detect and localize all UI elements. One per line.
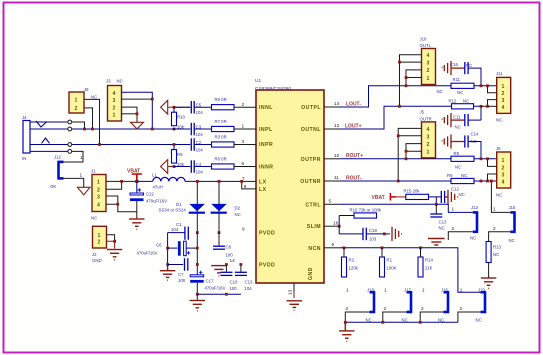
wire J6 pin2 jog <box>488 159 497 167</box>
svg-text:C13: C13 <box>439 220 447 225</box>
svg-text:VBAT: VBAT <box>127 169 140 175</box>
wire C14 to R8 node <box>468 142 481 159</box>
node NCN R1 <box>381 246 384 249</box>
svg-text:2: 2 <box>98 240 101 246</box>
node J10 pins12 junction <box>405 76 408 79</box>
node J3 pin1 junction <box>136 112 139 115</box>
node J8 pin2 on INPL <box>91 128 94 131</box>
wire INNL row <box>168 106 191 108</box>
wire R12 to J11 pin4 <box>474 106 482 120</box>
svg-text:1: 1 <box>452 207 455 212</box>
jumper J17 <box>407 291 413 313</box>
ground under R13 <box>481 278 496 288</box>
resistor R8 <box>451 156 474 161</box>
sideways ground of C14 <box>442 134 465 148</box>
svg-text:C10: C10 <box>230 280 238 285</box>
node J1 pins34 junction <box>116 203 119 206</box>
node J5 pin3 junction <box>397 134 400 137</box>
svg-text:J3: J3 <box>106 79 111 84</box>
electrolytic C22 stem top <box>136 181 138 193</box>
svg-text:1: 1 <box>427 150 430 156</box>
wire cap C5 to R5 <box>194 106 211 108</box>
node rail1-D1 junction <box>196 231 199 234</box>
node J2 junction <box>113 240 116 243</box>
svg-text:J12: J12 <box>54 154 62 159</box>
svg-text:NC: NC <box>461 173 467 178</box>
svg-text:6: 6 <box>242 161 245 166</box>
svg-text:C11: C11 <box>453 115 461 120</box>
wire R6 to IC pin 4 <box>234 166 256 168</box>
node J8 pin1 on INPR <box>98 143 101 146</box>
wire C6 left <box>168 247 178 249</box>
svg-text:3: 3 <box>97 194 100 200</box>
electrolytic C6 plate1 <box>178 241 181 256</box>
wire J10 pin1 stub <box>406 78 422 86</box>
capacitor C11 plates <box>465 114 468 126</box>
svg-text:14: 14 <box>334 101 340 106</box>
wire jack contact row2 <box>30 128 68 130</box>
capacitor C8 plates <box>213 246 225 249</box>
wire LX pin7 stub <box>242 180 256 182</box>
resistor R3 <box>212 142 235 147</box>
svg-text:R6 0R: R6 0R <box>215 157 227 162</box>
svg-text:1: 1 <box>113 112 116 118</box>
node J11 pin3 junction <box>486 105 489 108</box>
node J6 pin2 junction <box>486 157 489 160</box>
node gnd rail J16 <box>419 321 422 324</box>
svg-text:GND: GND <box>92 258 102 263</box>
svg-text:R3 0R: R3 0R <box>215 135 227 140</box>
svg-text:5: 5 <box>329 199 332 204</box>
capacitor C3 plates <box>191 123 194 136</box>
svg-text:104: 104 <box>196 170 204 175</box>
port arrow INNR <box>161 160 168 174</box>
wire C18 right to gnd <box>366 233 390 235</box>
wire L1 to LX pins <box>185 180 242 182</box>
wire C16 to LOUT- node <box>468 68 481 86</box>
header J2 body <box>93 226 107 248</box>
jumper J18 <box>370 291 376 313</box>
svg-text:J8: J8 <box>84 87 89 92</box>
diode D1 cathode bar <box>189 212 205 214</box>
wire SLIM loop left <box>338 216 340 234</box>
svg-text:J11: J11 <box>496 71 503 76</box>
node rail1-D2 junction <box>218 231 221 234</box>
header J5 body <box>422 122 436 158</box>
svg-text:100K: 100K <box>387 266 397 271</box>
node VBAT junction <box>135 180 138 183</box>
electrolytic C22 plate1 <box>130 193 144 195</box>
svg-text:2: 2 <box>452 226 455 231</box>
IC GND pin 13 stub <box>293 283 295 292</box>
op-amp IC U1 body <box>256 90 324 283</box>
svg-text:NC: NC <box>493 252 499 257</box>
wire J19 pin2 to gnd rail <box>458 312 481 322</box>
svg-text:NC: NC <box>437 89 443 94</box>
svg-text:INPR: INPR <box>259 142 273 148</box>
wire J10 pin4 to LOUT+ rail <box>400 55 422 107</box>
jumper J19 <box>481 291 487 313</box>
wire C18 left <box>339 233 363 235</box>
ground on rail2 at D2 column <box>211 266 226 276</box>
wire CTRL row <box>340 204 473 212</box>
svg-text:47uH: 47uH <box>153 185 163 190</box>
svg-text:LX: LX <box>259 187 267 193</box>
wire c4 to J12 <box>64 151 84 162</box>
svg-text:LX: LX <box>259 179 267 185</box>
capacitor C13 plates <box>235 272 247 275</box>
svg-text:1: 1 <box>75 98 78 104</box>
svg-text:R10: R10 <box>177 114 185 119</box>
capacitor C4 plates <box>191 160 194 173</box>
power ground triangle at J12 <box>77 187 90 195</box>
resistor R11 <box>451 83 474 88</box>
svg-text:R15 20k: R15 20k <box>404 189 421 194</box>
svg-text:104: 104 <box>196 110 204 115</box>
wire J8 pin2 to INPL <box>84 108 93 129</box>
svg-text:1: 1 <box>97 180 100 186</box>
svg-text:R11: R11 <box>453 77 461 82</box>
wire J10 pin2 jog <box>406 70 422 78</box>
capacitor C5 plates <box>191 101 194 114</box>
wire R7 to IC pin 1 <box>234 128 256 130</box>
jack switch terminal c2 <box>68 127 72 131</box>
wire J1 pin3 jog down <box>106 196 118 204</box>
resistor R10 (INNL-INPL) <box>172 112 177 126</box>
svg-text:2: 2 <box>502 91 505 97</box>
wire R16 leads <box>339 215 354 217</box>
wire J16 pin2 to gnd rail <box>420 312 443 322</box>
resistor R12 <box>452 104 474 109</box>
wire C17 stem bottom <box>196 283 198 300</box>
svg-text:1: 1 <box>346 288 349 293</box>
svg-text:GND: GND <box>308 267 314 280</box>
svg-text:J4: J4 <box>22 115 27 120</box>
node rail2 start junction <box>166 263 169 266</box>
electrolytic C6 plate2 <box>184 241 187 256</box>
svg-text:L1: L1 <box>152 173 157 178</box>
wire rail1 left drop <box>167 233 169 265</box>
svg-text:J13: J13 <box>471 205 479 210</box>
ground under J2 <box>107 250 122 260</box>
svg-text:U1: U1 <box>255 78 261 84</box>
capacitor C10 stem <box>225 265 227 272</box>
resistor R5 <box>212 105 235 110</box>
svg-text:12: 12 <box>334 123 340 128</box>
svg-text:J15: J15 <box>509 205 517 210</box>
wire J13 pin2 to gnd <box>448 232 473 240</box>
svg-text:NC: NC <box>457 90 463 95</box>
capacitor C13b stem <box>435 204 437 213</box>
svg-text:3: 3 <box>502 173 505 179</box>
wire INPR row <box>72 144 191 146</box>
capacitor C14 plates <box>465 135 468 147</box>
svg-text:16: 16 <box>333 220 339 225</box>
resistor R15 <box>406 194 429 199</box>
svg-text:R2: R2 <box>349 258 355 263</box>
wire R11 to J11 pin1 node <box>474 85 497 87</box>
svg-text:2: 2 <box>384 306 387 311</box>
svg-text:R7 0R: R7 0R <box>215 119 227 124</box>
svg-text:9: 9 <box>242 227 245 232</box>
header J10 body <box>422 49 436 85</box>
svg-text:R1: R1 <box>387 258 393 263</box>
node J6 pin3 junction <box>486 180 489 183</box>
wire cap C3 to R7 <box>194 128 211 130</box>
wire J5 pin4 to ROUT- <box>398 128 421 181</box>
resistor R14 <box>418 257 423 277</box>
jumper J12 <box>58 161 64 179</box>
wire J3 pin1 stub <box>122 113 138 115</box>
jack ring contact mark <box>42 138 50 143</box>
svg-text:OUTPR: OUTPR <box>301 157 321 163</box>
ground under rail column <box>160 265 175 281</box>
diode D2 cathode bar <box>211 212 227 214</box>
svg-text:4: 4 <box>427 127 430 133</box>
svg-text:4: 4 <box>97 202 100 208</box>
resistor R9 leads <box>173 145 175 150</box>
svg-text:R8: R8 <box>454 151 460 156</box>
svg-text:11: 11 <box>334 175 339 180</box>
svg-text:4: 4 <box>502 105 505 111</box>
svg-text:C16: C16 <box>450 62 458 67</box>
svg-text:J1: J1 <box>91 169 96 174</box>
svg-text:NC: NC <box>509 238 515 243</box>
wire VBAT to L1 <box>137 180 153 182</box>
ground under C13b <box>428 239 445 246</box>
svg-text:2: 2 <box>346 306 349 311</box>
node J15 pin1 on ROUT- <box>490 180 493 183</box>
svg-text:2: 2 <box>421 306 424 311</box>
svg-text:J17: J17 <box>404 287 412 292</box>
wire OUTPR pin stub <box>324 158 340 160</box>
capacitor C1 plates (on rail) <box>185 227 188 240</box>
svg-text:PVDD: PVDD <box>259 263 275 269</box>
svg-text:14: 14 <box>230 258 236 263</box>
svg-text:C6: C6 <box>156 243 162 248</box>
svg-text:470uF/16V: 470uF/16V <box>205 285 226 290</box>
svg-text:3: 3 <box>427 134 430 140</box>
wire J3 pin2 to ground <box>122 107 138 122</box>
svg-text:CTRL: CTRL <box>305 202 321 208</box>
svg-text:2: 2 <box>242 102 245 107</box>
svg-text:INNR: INNR <box>259 165 273 171</box>
electrolytic C17 plate1 <box>190 275 204 277</box>
svg-text:2: 2 <box>427 68 430 74</box>
header J11 body <box>497 77 511 113</box>
wire OUTNR pin stub <box>324 180 340 182</box>
svg-text:SLIM: SLIM <box>307 224 321 230</box>
capacitor C13 stem <box>240 265 242 272</box>
svg-text:NC: NC <box>91 216 97 221</box>
wire J11 pin3 jog <box>488 100 497 107</box>
svg-text:J18: J18 <box>367 287 375 292</box>
node R10 top junction <box>173 106 176 109</box>
node NCN R2 <box>343 246 346 249</box>
node R11 right junction <box>480 84 483 87</box>
node R10 bottom junction <box>173 128 176 131</box>
svg-text:IN: IN <box>22 156 26 161</box>
wire C11 to R12 node <box>468 119 481 121</box>
node J10 pin3 junction <box>398 61 401 64</box>
svg-text:NC: NC <box>91 95 97 100</box>
svg-text:C17: C17 <box>206 278 214 283</box>
jumper J12 pin2 stub <box>64 178 84 187</box>
resistor R2 leads <box>343 248 345 257</box>
svg-text:C22: C22 <box>146 192 154 197</box>
capacitor C8 stem <box>218 233 220 246</box>
wire jack contact row1 <box>30 121 68 123</box>
svg-text:SS34 or SS24: SS34 or SS24 <box>159 208 187 213</box>
wire PVDD rail pin9 <box>168 232 185 234</box>
svg-text:NC: NC <box>470 236 476 241</box>
svg-text:C12: C12 <box>451 187 459 192</box>
electrolytic C17 plate2 <box>190 280 204 283</box>
svg-text:R13: R13 <box>493 245 501 250</box>
svg-text:NC: NC <box>439 226 445 231</box>
port arrow INNL <box>161 100 168 114</box>
wire NCN pin stub <box>324 247 340 249</box>
svg-text:2: 2 <box>113 106 116 112</box>
wire J8 pin1 to INPR <box>84 99 100 144</box>
wire jack contact row4 <box>30 150 68 152</box>
svg-text:C18: C18 <box>369 228 377 233</box>
svg-text:NC: NC <box>496 193 502 198</box>
svg-text:1: 1 <box>80 155 83 160</box>
svg-text:J10: J10 <box>420 37 428 42</box>
node J5 pins34 on ROUT- <box>397 180 400 183</box>
svg-text:NC: NC <box>235 212 241 217</box>
node J3 vertical on INPL <box>151 128 154 131</box>
wire J5 pin3 stub <box>398 135 421 137</box>
VBAT power bar at J1 <box>132 174 142 181</box>
svg-text:4: 4 <box>502 180 505 186</box>
wire OUTNL to LOUT+ rail <box>340 106 452 129</box>
resistor R1 <box>380 257 385 277</box>
svg-text:NC: NC <box>366 318 372 323</box>
wire C6 right <box>186 247 197 249</box>
resistor R10 leads <box>173 107 175 112</box>
header J1 body <box>92 175 106 212</box>
electrolytic C6 plus mark <box>187 251 190 254</box>
wire J2 pin2 <box>107 241 115 248</box>
svg-text:C8: C8 <box>226 245 232 250</box>
svg-text:R9: R9 <box>447 173 453 178</box>
node C17 stem junction <box>196 293 199 296</box>
wire LX pin8 jog <box>242 181 256 189</box>
svg-text:OUTL: OUTL <box>420 43 432 48</box>
svg-text:CS8389/CS8390: CS8389/CS8390 <box>255 86 291 92</box>
svg-text:NC: NC <box>117 79 123 84</box>
svg-text:4: 4 <box>113 91 116 97</box>
wire INNR row <box>168 166 191 168</box>
capacitor C18 plates <box>363 228 366 241</box>
header J3 body <box>108 86 122 122</box>
inductor L1 <box>153 177 185 181</box>
svg-text:NC: NC <box>476 318 482 323</box>
svg-text:R16 72k or 100k: R16 72k or 100k <box>350 207 382 212</box>
jumper J16 <box>444 291 450 313</box>
svg-text:R5 0R: R5 0R <box>215 97 227 102</box>
wire R3 to IC pin 3 <box>234 144 256 146</box>
svg-text:470uF/16V: 470uF/16V <box>146 199 167 204</box>
svg-text:NC: NC <box>459 192 465 197</box>
electrolytic C22 stem bottom <box>136 201 138 218</box>
svg-text:2: 2 <box>427 142 430 148</box>
wire J3 pin3 stub <box>122 98 153 100</box>
wire J1 pin2 jog up <box>106 181 122 189</box>
resistor R7 <box>212 126 235 131</box>
svg-text:8: 8 <box>244 184 247 189</box>
svg-text:D2: D2 <box>235 206 241 211</box>
resistor R16 <box>354 213 377 218</box>
node C6 tee <box>166 247 169 250</box>
wire OUTPL pin stub <box>324 106 340 108</box>
wire R13 to gnd <box>488 263 490 278</box>
wire PVDD rail pin14 <box>168 264 184 266</box>
svg-text:INPL: INPL <box>259 127 273 133</box>
header J6 body <box>497 152 511 188</box>
node J10 pins12 on LOUT- <box>405 84 408 87</box>
svg-text:104: 104 <box>196 148 204 153</box>
svg-text:NC: NC <box>496 118 502 123</box>
svg-text:2: 2 <box>493 226 496 231</box>
svg-text:1: 1 <box>242 124 245 129</box>
capacitor C13b plates <box>430 214 442 217</box>
jack tip contact mark <box>36 121 47 127</box>
svg-text:10: 10 <box>334 153 340 158</box>
wire D1 column <box>196 181 198 232</box>
svg-text:NC: NC <box>438 318 444 323</box>
svg-text:6: 6 <box>332 242 335 247</box>
svg-text:R9: R9 <box>177 152 183 157</box>
node gnd rail J18 <box>344 321 347 324</box>
svg-text:1: 1 <box>80 173 83 178</box>
resistor R9b <box>451 178 474 183</box>
wire jack contact row3 <box>30 144 68 146</box>
svg-text:INNL: INNL <box>259 105 273 111</box>
node D2 on LX wire <box>218 180 221 183</box>
wire J15 pin1 to ROUT- node <box>491 181 510 212</box>
svg-text:100: 100 <box>226 253 234 258</box>
svg-text:103: 103 <box>369 236 377 241</box>
svg-text:104: 104 <box>171 227 179 232</box>
svg-text:3: 3 <box>242 139 245 144</box>
wire OUTPL to LOUT- rail <box>340 86 451 107</box>
wire J15 pin2 to R13 <box>489 232 511 242</box>
wire INNR row to cap <box>174 166 190 168</box>
node rail2 junction <box>196 263 199 266</box>
svg-text:R14: R14 <box>425 258 433 263</box>
node C10 bottom <box>225 293 228 296</box>
svg-text:NCN: NCN <box>308 246 321 252</box>
jack switch terminal c1 <box>68 120 72 124</box>
svg-text:1: 1 <box>493 207 496 212</box>
resistor R9 (INPR-INNR) <box>172 150 177 164</box>
svg-text:NC: NC <box>466 63 472 68</box>
jumper J15 <box>510 212 515 233</box>
sideways ground at SLIM <box>392 227 402 241</box>
node gnd rail J17 <box>381 321 384 324</box>
wire CTRL pin stub <box>324 203 340 205</box>
wire NCN row <box>340 248 481 292</box>
svg-text:1: 1 <box>502 158 505 164</box>
wire J5 pin1 stub <box>406 151 422 159</box>
svg-text:3: 3 <box>502 98 505 104</box>
wire R15 to CTRL node <box>429 197 437 204</box>
node R9 bottom junction <box>173 165 176 168</box>
svg-text:OUTPL: OUTPL <box>301 105 321 111</box>
